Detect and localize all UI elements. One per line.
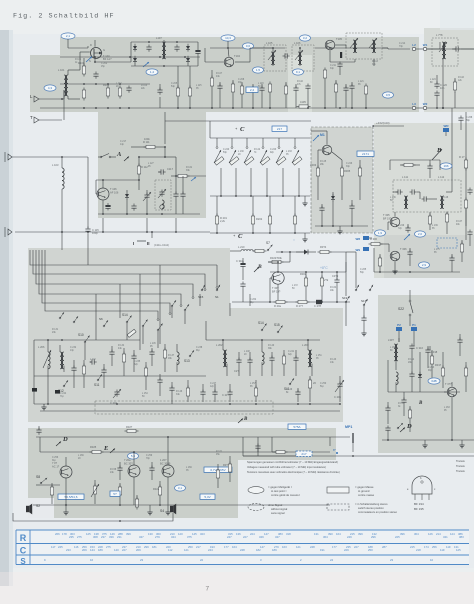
transistor T310: [52, 461, 72, 478]
transformer L203: [302, 340, 312, 376]
capacitor p5 d3: [131, 350, 136, 372]
svg-text:L 142: L 142: [90, 359, 96, 361]
switch S12: [58, 380, 68, 393]
capacitor fr3: [467, 188, 472, 195]
oval 10,3: [221, 35, 235, 41]
transistor T305: [383, 213, 400, 227]
diode D101: [133, 44, 137, 52]
svg-text:R 164: R 164: [330, 287, 337, 289]
svg-text:C 253: C 253: [428, 367, 435, 369]
svg-text:R 119: R 119: [186, 167, 193, 169]
trimmer cap osc: [158, 189, 166, 198]
capacitor CD2: [385, 426, 390, 441]
legend rect dashed: [327, 504, 349, 510]
resistor R107: [188, 86, 191, 99]
resistor lowr3: [186, 380, 189, 402]
capacitor S22 extra: [457, 334, 462, 356]
capacitor out in: [36, 426, 41, 435]
trimmer right: [439, 42, 447, 52]
switch S11b: [284, 378, 294, 391]
resistor R311: [445, 212, 448, 235]
jack symbol 2: [5, 227, 12, 237]
wire L101 connections: [62, 70, 80, 120]
capacitor p5 d1: [109, 346, 114, 366]
switch S13: [184, 350, 194, 363]
svg-text:R 101: R 101: [75, 59, 82, 61]
wire tape input: [12, 156, 88, 158]
svg-text:L 172: L 172: [292, 285, 298, 287]
legend oval dashed: [248, 504, 264, 511]
ground out3: [165, 505, 170, 515]
extra bus dots: [61, 48, 444, 233]
svg-text:C 217: C 217: [120, 141, 127, 143]
resistor extra t6: [334, 80, 337, 108]
svg-text:L 166: L 166: [78, 455, 84, 457]
gray panel: top RF band: [30, 37, 419, 112]
gray panel: S22 right-bottom block: [378, 295, 474, 453]
label +C top: [235, 126, 245, 133]
svg-text:C 229: C 229: [398, 225, 405, 227]
transistor T103: [89, 43, 112, 63]
coil tank3: [262, 340, 264, 376]
label B mid: [254, 264, 262, 272]
ground P5: [41, 404, 46, 410]
resistor p5lr1: [82, 360, 85, 388]
svg-text:L 163: L 163: [444, 407, 450, 409]
wire AM drops to bus: [102, 218, 177, 233]
capacitor C110: [157, 88, 162, 95]
capacitor C318: [425, 346, 437, 368]
svg-text:L 124: L 124: [430, 79, 436, 81]
resistor out r2: [91, 480, 99, 504]
diode D104: [186, 56, 190, 64]
capacitor tank4: [269, 352, 274, 376]
pinout caption: [414, 502, 424, 511]
legend oval text: [268, 485, 301, 497]
wire out top bus: [36, 436, 350, 438]
switch S15 top: [198, 285, 205, 299]
coil L206: [38, 340, 51, 388]
resistor R2b7 bot: [296, 300, 310, 308]
wire right mid extra: [390, 160, 440, 170]
svg-text:C 247: C 247: [210, 383, 217, 385]
transformer L107 L108: [156, 36, 166, 59]
svg-text:L 169: L 169: [186, 467, 192, 469]
legend line fr: [247, 470, 340, 474]
transistor TD: [445, 382, 457, 397]
wire T301c: [268, 261, 279, 302]
resistor R104: [118, 86, 121, 99]
selector I-II mark: [133, 241, 169, 247]
diode AM: [125, 190, 129, 214]
capacitor C316: [409, 344, 423, 361]
wire T106: [96, 179, 140, 214]
resistor out r4: [153, 481, 162, 504]
svg-text:R 122: R 122: [254, 149, 261, 151]
dashed can box 1: [264, 45, 286, 71]
svg-text:R 167: R 167: [456, 221, 463, 223]
capacitor C121r: [434, 91, 439, 98]
IF transformer L105: [266, 41, 275, 65]
wire nested loop 5: [42, 258, 170, 312]
wire IF cans: [235, 48, 300, 66]
oval 386: [383, 92, 394, 98]
resistor S22 extra: [464, 362, 467, 392]
oval t105: [300, 35, 311, 41]
resistor R20a bot: [274, 300, 288, 308]
label E out: [103, 445, 115, 453]
wire C115 to loop: [87, 234, 89, 265]
wire mid rail: [60, 83, 150, 85]
resistor R111: [143, 137, 158, 149]
wire switch bank top bus: [210, 121, 310, 138]
trimmer C201: [334, 376, 344, 402]
svg-text:C 238: C 238: [196, 347, 203, 349]
svg-text:L 118: L 118: [258, 83, 264, 85]
svg-text:L 154: L 154: [142, 393, 148, 395]
legend right text: [456, 459, 465, 473]
wire out mid rail: [40, 484, 60, 486]
svg-text:R 143: R 143: [330, 359, 337, 361]
node dots top rails: [94, 47, 373, 58]
resistor R325: [90, 445, 104, 454]
label D out: [56, 436, 68, 446]
resistor R113a: [171, 174, 206, 177]
capacitor p5lc3: [101, 364, 106, 388]
svg-text:R 131: R 131: [52, 329, 59, 331]
svg-text:L 112: L 112: [116, 83, 122, 85]
resistor R120r: [453, 78, 456, 93]
svg-text:L 145: L 145: [150, 343, 156, 345]
capacitor S22 e2: [401, 392, 406, 416]
capacitor C104: [126, 86, 131, 93]
svg-text:C 250: C 250: [320, 383, 327, 385]
resistor out r6: [223, 456, 232, 482]
wire misc p5: [172, 307, 206, 340]
dashed box right dec: [437, 238, 457, 248]
capacitor tank5: [293, 350, 298, 376]
switch S22: [398, 290, 413, 326]
wire T305: [388, 212, 395, 230]
resistor bank R204: [293, 196, 296, 233]
oval below T103: [44, 85, 56, 91]
wire I-II drop: [151, 232, 153, 238]
gray panel: decoder transistor row: [384, 235, 474, 278]
transformer L201: [60, 345, 64, 372]
wire S22 links: [420, 346, 460, 392]
capacitor tank1: [234, 352, 242, 376]
svg-text:L 175: L 175: [434, 249, 440, 251]
switch S17: [361, 299, 368, 306]
svg-text:C 235: C 235: [134, 361, 141, 363]
blue box 575A: [288, 424, 306, 429]
svg-text:R 158: R 158: [110, 469, 117, 471]
electrolytic C109: [195, 48, 200, 55]
dashed IF box L111 L112: [393, 175, 461, 212]
gray panel: right mid IF strip: [374, 123, 474, 278]
wire p5 left rails: [34, 339, 140, 404]
resistor R309: [460, 240, 463, 262]
wire out drops: [66, 477, 168, 505]
capacitor C107: [174, 45, 179, 52]
ground out1: [63, 505, 68, 515]
resistor extra t2: [240, 82, 243, 108]
svg-text:L 151: L 151: [316, 355, 322, 357]
coil L111: [404, 196, 408, 209]
capacitor C119a: [131, 204, 136, 211]
table letter C: [20, 546, 27, 556]
svg-text:C 211: C 211: [330, 65, 337, 67]
wire M1 top: [318, 138, 327, 160]
svg-text:R 155: R 155: [398, 403, 405, 405]
blue arrow T305: [404, 234, 410, 240]
gray panel: lower-left FM tuner: [28, 248, 343, 422]
switch S14a: [122, 313, 132, 323]
oscillator tank dashed box: [155, 180, 171, 210]
blue M1 arrow: [313, 133, 325, 141]
speaker S2: [26, 504, 40, 515]
blue arrow to detector: [143, 62, 149, 67]
switch S19: [342, 296, 350, 303]
svg-text:L 160: L 160: [390, 347, 396, 349]
wire nested loop 2: [33, 258, 205, 288]
resistor R101: [78, 61, 86, 77]
legend line en: [247, 465, 326, 469]
coil mid: [177, 344, 179, 372]
switch WR: [432, 132, 446, 160]
wire top rail: [60, 48, 388, 57]
switch bank S-contacts: [214, 138, 302, 197]
resistor R317: [435, 363, 445, 388]
resistor R316: [430, 350, 433, 378]
wire T104 top: [227, 41, 229, 57]
diode D102: [133, 56, 137, 64]
switch extra p5b: [171, 300, 176, 307]
svg-text:R 107: R 107: [216, 73, 223, 75]
svg-text:C 241: C 241: [288, 351, 295, 353]
capacitor rme2: [427, 160, 432, 178]
svg-text:C 220: C 220: [223, 149, 230, 151]
capacitor T305c: [405, 224, 410, 233]
switch S15: [274, 323, 283, 333]
gray panel: AM mixer block: [98, 112, 206, 218]
switch S14d: [258, 321, 267, 331]
svg-text:L 148: L 148: [244, 351, 250, 353]
capacitor M1a: [319, 204, 324, 226]
ground M1: [337, 228, 342, 234]
trimmer arrows IF cans: [268, 50, 303, 60]
pin L3: [412, 102, 416, 110]
capacitor IF3: [422, 196, 429, 201]
blue tab P2: [396, 323, 402, 331]
table letter cells: [16, 530, 30, 565]
resistor R307: [378, 254, 381, 272]
oval right 196: [440, 163, 452, 169]
transistor T311: [124, 458, 140, 477]
ground T306: [392, 268, 397, 274]
coil osc: [160, 200, 164, 209]
resistor R302c: [300, 272, 308, 302]
resistor R106: [176, 86, 179, 99]
table letter S: [20, 557, 26, 566]
wire W8 vert links: [346, 252, 356, 296]
dashed assembly box: [95, 401, 273, 414]
svg-text:C 265: C 265: [360, 269, 367, 271]
wire loop feeds: [30, 250, 45, 258]
switch extra p5a: [184, 304, 189, 311]
capacitor C309c: [332, 272, 340, 302]
wire oval to T103: [68, 39, 88, 48]
blue box 248: [246, 87, 258, 92]
svg-text:C 268: C 268: [466, 117, 473, 119]
transistor T104: [224, 54, 240, 67]
dashed can box 2: [292, 45, 314, 71]
pin W2: [423, 102, 428, 110]
capacitor S17c: [361, 316, 366, 331]
switch S6a: [99, 317, 108, 327]
ground out2: [147, 505, 152, 515]
blue box out b3: [200, 494, 215, 499]
svg-text:R 113: R 113: [372, 61, 379, 63]
wire S7 row: [276, 251, 304, 253]
ground S17: [361, 330, 366, 336]
wire tank rails: [206, 339, 320, 341]
resistor R103: [103, 83, 110, 99]
coil L112: [440, 196, 444, 209]
blue dot 8: [333, 448, 338, 454]
wire S19 col: [345, 316, 347, 326]
wire detector to bus: [160, 66, 191, 109]
oval 1,5: [253, 67, 264, 73]
blue box 217 top: [272, 126, 287, 131]
wire M1 bottom: [315, 210, 368, 228]
arrow +43V: [372, 121, 404, 127]
svg-text:C 244: C 244: [60, 393, 67, 395]
dashed can box right: [432, 38, 458, 66]
wire P6 right area: [243, 437, 330, 456]
legend rect solid: [327, 487, 349, 493]
capacitor midc1: [149, 348, 154, 366]
pin L2: [412, 43, 416, 51]
transistor T106: [97, 187, 119, 200]
transformer L206 right: [436, 33, 446, 59]
wire AM top entry: [165, 112, 327, 157]
gray panel: AF output stage: [28, 428, 336, 518]
wire S19 drop: [346, 303, 364, 318]
svg-text:L 115: L 115: [196, 85, 202, 87]
capacitor tank2: [247, 352, 252, 376]
capacitor C309: [449, 254, 454, 272]
oval value 1,4: [146, 69, 158, 75]
capacitor C117t: [337, 62, 342, 76]
capacitor C103: [93, 72, 98, 79]
capacitor fr1: [458, 116, 463, 131]
transistor T105: [325, 37, 342, 50]
capacitor C118a: [105, 203, 110, 210]
capacitor C310c: [236, 258, 246, 302]
wire right vbus: [451, 108, 453, 183]
switch S18 lever: [355, 285, 359, 291]
resistor bank R203: [268, 196, 271, 233]
transformer L101: [58, 68, 68, 96]
svg-text:C 232: C 232: [70, 347, 77, 349]
resistor R303: [310, 160, 320, 200]
capacitor M1b: [349, 200, 354, 226]
capacitor C321: [149, 462, 154, 480]
svg-text:R 134: R 134: [118, 345, 125, 347]
oval out1: [128, 453, 139, 459]
table S row numbers: [44, 558, 434, 562]
capacitor lowc5: [212, 384, 217, 402]
label D right: [400, 423, 412, 432]
capacitor C116t: [305, 84, 310, 109]
wire AM right vbus: [175, 157, 183, 190]
svg-text:L 136: L 136: [390, 197, 396, 199]
svg-text:C 202: C 202: [101, 63, 108, 65]
resistor R113t: [268, 82, 271, 109]
MP1 mark: [352, 433, 354, 452]
svg-text:R 125: R 125: [320, 161, 327, 163]
capacitor IF1: [396, 189, 403, 194]
resistor R303c: [320, 272, 329, 302]
wire P5 inner verticals: [96, 265, 250, 344]
transistor M1: [322, 145, 332, 155]
capacitor CD1: [385, 402, 390, 424]
resistor R112a: [137, 157, 148, 190]
resistor R321: [125, 425, 139, 433]
wire P6 low rail: [243, 455, 296, 457]
oval 291: [293, 239, 295, 241]
blue tab W8: [356, 236, 370, 241]
wire T104 base: [205, 48, 224, 62]
blue tab P1: [411, 323, 417, 331]
wire speaker taps: [33, 504, 176, 506]
resistor p5 d4: [144, 362, 147, 390]
resistor out r7: [216, 464, 219, 488]
resistor P6r2: [272, 450, 288, 453]
wire to L2 pin: [388, 48, 410, 50]
resistor out r1: [50, 483, 53, 504]
resistor R310: [428, 212, 431, 230]
capacitor lowc: [295, 388, 300, 402]
svg-text:R 146: R 146: [176, 391, 183, 393]
diode M1: [331, 192, 335, 210]
switch S1 top: [215, 285, 220, 299]
blue arrow small AM: [191, 177, 196, 181]
svg-text:C 259: C 259: [146, 455, 153, 457]
resistor out r5: [135, 495, 138, 510]
IF transformer L106: [294, 41, 302, 65]
wire third stage: [330, 45, 388, 66]
table letter R: [20, 533, 27, 543]
switch S10: [78, 333, 90, 343]
wire nested loop 6: [45, 258, 158, 318]
capacitor C106: [146, 45, 151, 52]
wire long mid bus: [15, 231, 210, 233]
oval T306 val: [419, 262, 430, 268]
capacitor C308: [407, 248, 412, 266]
capacitor P6r1: [255, 444, 260, 457]
ground S22a: [422, 440, 427, 448]
capacitor C117a: [158, 167, 174, 175]
wire right panel: [427, 42, 474, 109]
legend oval dashed text: [268, 503, 288, 515]
blue box out b1: [58, 494, 84, 499]
resistor bank R201: [215, 196, 227, 233]
wire out rail2: [40, 437, 330, 452]
table C row numbers: [51, 545, 461, 552]
wire R111 rail: [131, 121, 166, 148]
